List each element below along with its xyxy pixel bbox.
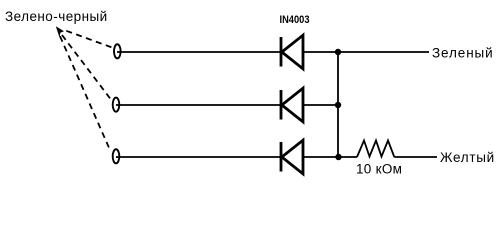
wire: terminal 2 to diode D2 [116, 104, 281, 106]
arrowhead (leader callout) [56, 26, 64, 38]
wire: D1 cathode to junction A [303, 51, 338, 53]
terminal circle 2 [113, 98, 120, 112]
svg-text:Желтый: Желтый [440, 150, 495, 165]
junction node B [335, 102, 341, 108]
leader line (dashed) to terminal 2 [62, 35, 111, 99]
junction node A [335, 49, 341, 55]
wire: D3 cathode to junction C [303, 156, 339, 158]
terminal circle 3 [113, 149, 120, 163]
svg-text:Зеленый: Зеленый [432, 46, 494, 61]
svg-text:IN4003: IN4003 [280, 14, 310, 26]
diode D3 [281, 140, 303, 174]
wire: vertical bus [337, 52, 339, 157]
wire: D2 cathode to junction B [303, 104, 338, 106]
diode D1 [281, 35, 303, 69]
wire: terminal 3 to diode D3 [116, 156, 281, 158]
wire: terminal 1 to diode D1 anode-bar [117, 51, 281, 53]
wire: junction A to Зеленый lead [338, 51, 429, 53]
svg-text:10 кОм: 10 кОм [356, 162, 402, 177]
leader line (dashed) to terminal 1 [66, 31, 112, 48]
diode D2 [281, 88, 303, 122]
wire: junction C to resistor R1 [339, 156, 358, 158]
resistor R1 [357, 141, 394, 158]
junction node C [335, 154, 341, 160]
terminal circle 1 [114, 44, 121, 58]
leader line (dashed) to terminal 3 [60, 36, 110, 150]
svg-text:Зелено-черный: Зелено-черный [5, 9, 108, 24]
wire: resistor R1 to Желтый lead [394, 156, 437, 158]
